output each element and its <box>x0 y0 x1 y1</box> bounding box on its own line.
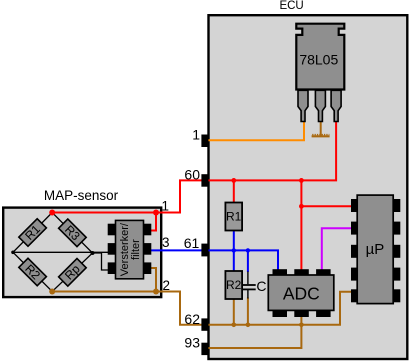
svg-text:60: 60 <box>184 167 200 183</box>
svg-text:1: 1 <box>192 127 200 143</box>
svg-text:µP: µP <box>366 241 385 258</box>
svg-text:61: 61 <box>184 235 200 251</box>
svg-text:62: 62 <box>184 311 200 327</box>
svg-text:filter: filter <box>130 239 142 260</box>
svg-text:ADC: ADC <box>283 283 320 303</box>
svg-text:93: 93 <box>184 335 200 351</box>
svg-text:2: 2 <box>163 278 171 293</box>
svg-text:R2: R2 <box>226 278 242 292</box>
svg-text:MAP-sensor: MAP-sensor <box>44 188 119 203</box>
svg-text:R1: R1 <box>226 210 242 224</box>
svg-text:1: 1 <box>162 199 170 214</box>
svg-text:3: 3 <box>162 235 170 250</box>
svg-text:78L05: 78L05 <box>299 52 338 68</box>
svg-text:C: C <box>256 278 266 294</box>
svg-text:ECU: ECU <box>279 0 303 12</box>
